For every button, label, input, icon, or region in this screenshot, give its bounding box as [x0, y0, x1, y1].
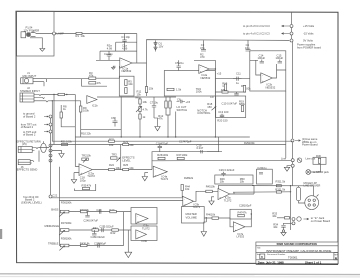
label NOTCH CONTROL [197, 108, 211, 115]
svg-text:10k: 10k [240, 180, 245, 184]
resistor R35 feedback [75, 183, 96, 190]
wire lamp loop [100, 42, 137, 51]
wire treble row [69, 245, 124, 247]
board2 terminal C [23, 130, 52, 137]
svg-text:R20 150: R20 150 [217, 118, 228, 122]
feedback box IC4 [152, 152, 222, 170]
svg-text:EFFECTS SEND: EFFECTS SEND [17, 168, 38, 172]
wire vertical mute bus [290, 186, 292, 230]
svg-text:CONTROL: CONTROL [197, 111, 211, 115]
svg-text:0V Volts: 0V Volts [303, 39, 314, 43]
wire mic to preamp [44, 79, 89, 87]
resistor R5 [125, 80, 134, 87]
capacitor C1a [122, 42, 128, 51]
svg-text:on Power Board: on Power Board [311, 219, 331, 223]
pot R37 midrange [45, 221, 73, 235]
svg-text:-: - [219, 191, 220, 194]
svg-text:100k: 100k [249, 141, 255, 145]
power supply terminal 0V [290, 35, 321, 50]
feedback box IC6b [131, 226, 157, 241]
svg-text:C6: C6 [111, 116, 115, 120]
wire output row 1 [252, 185, 314, 187]
svg-text:-: - [184, 198, 185, 201]
line return terminal [287, 164, 294, 167]
wire IC1b output [97, 96, 176, 98]
resistor R13 [167, 88, 182, 92]
svg-text:VOLUME: VOLUME [186, 215, 198, 219]
resistor R6 [125, 88, 127, 94]
resistor R1 [76, 32, 86, 38]
svg-text:-: - [137, 232, 138, 235]
ground power jack [40, 49, 45, 52]
svg-text:C11: C11 [236, 72, 241, 76]
svg-text:LEVEL: LEVEL [122, 158, 131, 162]
svg-text:10k: 10k [143, 100, 148, 104]
resistor R39 [80, 208, 90, 213]
wire EQ row [215, 79, 249, 92]
resistor R46 10k [206, 213, 219, 220]
svg-text:LINE DRIVER: LINE DRIVER [304, 184, 321, 188]
capacitor C8 [177, 97, 191, 104]
svg-text:T00001: T00001 [288, 255, 298, 259]
svg-text:10k: 10k [185, 187, 190, 191]
wire output row 2 [233, 191, 291, 193]
wire bus y137 [75, 136, 250, 138]
svg-text:C9: C9 [210, 95, 214, 99]
effects loop terminal 2 [49, 149, 52, 152]
svg-text:1.5k: 1.5k [280, 180, 286, 184]
svg-text:12V POWER: 12V POWER [24, 28, 40, 32]
ground IC3a [71, 173, 76, 184]
svg-text:NE5532: NE5532 [266, 85, 276, 89]
svg-text:MIDRANGE: MIDRANGE [45, 224, 60, 228]
capacitor C15 100uF [276, 53, 284, 63]
resistor R19 680k [239, 99, 245, 111]
svg-text:1.5k: 1.5k [176, 88, 182, 92]
resistor R4 [89, 81, 102, 85]
svg-text:100k: 100k [66, 221, 72, 225]
power input section box [17, 11, 54, 56]
svg-text:-: - [262, 75, 263, 78]
resistor R41 [92, 226, 99, 231]
svg-text:47u: 47u [200, 46, 205, 50]
resistor R25 10k [123, 163, 135, 171]
svg-text:-: - [200, 66, 201, 69]
svg-text:22k: 22k [87, 132, 92, 136]
svg-text:1u: 1u [236, 81, 239, 85]
switch contact circle [282, 230, 284, 232]
resistor R8 [60, 105, 75, 127]
svg-text:NE5532: NE5532 [201, 76, 211, 80]
svg-text:-: - [81, 166, 82, 169]
svg-text:150: 150 [207, 105, 212, 109]
connector J2 stereo input [20, 86, 48, 102]
svg-text:of Board 2: of Board 2 [23, 114, 36, 118]
ground IC5a [209, 197, 214, 205]
signal level terminal [21, 194, 58, 205]
effects return jack J5 [17, 139, 41, 152]
svg-text:IC6b: IC6b [142, 239, 148, 243]
line driver box [250, 51, 286, 91]
svg-text:15k: 15k [149, 87, 154, 91]
wire treble to bass vertical [123, 212, 125, 246]
switch SW1 lo-cut label [176, 105, 187, 137]
svg-text:INSTRUMENT PREAMP, CALIFORNIA: INSTRUMENT PREAMP, CALIFORNIA BLONDE [266, 249, 331, 253]
svg-text:47k: 47k [97, 81, 102, 85]
mute sense terminal [291, 137, 318, 147]
capacitor C26 0.022uF [91, 230, 106, 239]
shield oval [41, 143, 47, 152]
resistor R22 10k [109, 137, 115, 147]
board2 terminal B [21, 123, 52, 130]
power supply terminal +15V [243, 12, 315, 28]
effects loop terminal 1 [49, 144, 52, 147]
svg-text:470pF: 470pF [161, 141, 169, 145]
ground effects [52, 151, 64, 158]
capacitor C7 [150, 97, 159, 118]
wire lamp drop to ground [30, 38, 42, 49]
svg-text:(SIGNAL LEVEL): (SIGNAL LEVEL) [21, 200, 42, 204]
pot R38 treble [48, 236, 72, 250]
wire mic bottom [82, 79, 108, 87]
svg-text:4.99: 4.99 [107, 46, 113, 50]
trimmer TR2 [82, 153, 92, 162]
svg-text:MIC INPUT: MIC INPUT [23, 74, 37, 78]
svg-text:100k: 100k [196, 90, 202, 94]
svg-text:Document Number: Document Number [267, 253, 286, 256]
svg-text:100k: 100k [182, 153, 188, 157]
resistor R42 [110, 229, 118, 235]
resistor R44 at bus end [181, 185, 190, 198]
op-amp IC3a [79, 164, 95, 178]
svg-text:SWR SOUND CORPORATION: SWR SOUND CORPORATION [277, 242, 317, 246]
capacitor C19 0.047 [197, 137, 219, 153]
svg-text:100k: 100k [66, 201, 72, 205]
svg-text:B: B [261, 255, 263, 259]
resistor R32 [275, 188, 285, 193]
svg-text:NE5532: NE5532 [122, 69, 132, 73]
svg-text:0.022uF: 0.022uF [104, 225, 114, 229]
wire trim vertical [120, 145, 122, 170]
svg-text:22u: 22u [179, 61, 184, 65]
resistor R28 label [184, 176, 194, 180]
svg-text:to SPKR jack: to SPKR jack [313, 170, 329, 174]
svg-text:10u: 10u [262, 166, 267, 170]
svg-text:47k: 47k [242, 210, 247, 214]
svg-text:-: - [155, 168, 156, 171]
svg-text:-: - [137, 216, 138, 219]
ground tone stack [125, 252, 132, 257]
capacitor C28 label [239, 204, 252, 208]
ground tone-circuit [251, 213, 252, 214]
svg-text:LF353: LF353 [237, 235, 245, 239]
capacitor C11 [233, 72, 242, 85]
svg-text:4.7k: 4.7k [143, 108, 149, 112]
capacitor C3 [200, 40, 206, 51]
svg-text:100pF: 100pF [244, 204, 252, 208]
svg-text:47k: 47k [87, 183, 92, 187]
svg-text:15V: 15V [159, 44, 164, 48]
capacitor C18 label [80, 176, 86, 183]
trimmer TR3 sensitivity [111, 153, 135, 163]
capacitor C12 [234, 92, 238, 95]
molex connector label [304, 181, 321, 188]
wire IC1a output [132, 62, 147, 64]
svg-text:IC1b: IC1b [92, 103, 98, 107]
resistor R33 10k [272, 211, 290, 219]
wire IC2b out [272, 64, 286, 78]
svg-text:TREBLE: TREBLE [48, 242, 59, 246]
svg-text:47k: 47k [158, 116, 163, 120]
capacitor C24 0.047uF [83, 212, 98, 223]
wire lamp line [36, 33, 137, 35]
svg-text:0.047uF: 0.047uF [88, 219, 98, 223]
wire IC5b out [194, 191, 200, 201]
wire driver internals [250, 60, 261, 75]
svg-text:680pF: 680pF [99, 242, 107, 246]
capacitor C1 [121, 34, 130, 43]
svg-text:EFFECTS RETURN: EFFECTS RETURN [17, 139, 41, 143]
svg-text:C22: C22 [52, 194, 57, 198]
op-amp IC6b [136, 230, 148, 243]
svg-text:from POWER board: from POWER board [297, 46, 321, 50]
svg-text:to pin 8 of IC1 IC2 IC3: to pin 8 of IC1 IC2 IC3 [243, 24, 270, 28]
resistor R2a label [107, 44, 113, 51]
svg-text:C8: C8 [177, 97, 181, 101]
notch filter box [216, 96, 246, 118]
wire IC2a output / long vertical [209, 60, 215, 137]
resistor R10 label [81, 132, 91, 136]
pot R36 bass [51, 201, 72, 217]
svg-text:10k: 10k [211, 213, 216, 217]
mute terminal 2 [284, 222, 296, 225]
svg-text:+15 Volts: +15 Volts [303, 24, 315, 28]
svg-text:C1 10p: C1 10p [121, 35, 130, 39]
op-amp IC5b [183, 196, 201, 209]
svg-text:of Board 2: of Board 2 [21, 125, 34, 129]
capacitor C17 470pF [179, 140, 192, 144]
resistor R24 10k [109, 163, 121, 171]
svg-text:R24: R24 [109, 163, 114, 167]
presence box [215, 175, 253, 184]
svg-text:TL072: TL072 [161, 177, 169, 181]
capacitor C5 [175, 60, 184, 70]
feedback box IC2a [164, 71, 215, 97]
wire signal bus 1 [52, 197, 183, 199]
output section box [257, 169, 273, 184]
pot wiper notch [212, 107, 216, 110]
svg-text:-15 Volts: -15 Volts [303, 32, 314, 36]
capacitor C2 [100, 51, 113, 60]
resistor R45 10k [200, 185, 218, 193]
svg-text:100k: 100k [66, 236, 72, 240]
capacitor C20 [257, 166, 267, 174]
svg-text:(J5): (J5) [22, 142, 27, 146]
capacitor C13 100 [218, 110, 229, 118]
resistor R21 100k label [61, 140, 73, 146]
trimmer chain TR1 [135, 96, 149, 137]
capacitor C27 [94, 242, 106, 248]
resistor R34 label [273, 222, 278, 229]
connector J4 lamp power jack [21, 26, 39, 38]
svg-text:to pin 4 of IC1 IC2 IC3: to pin 4 of IC1 IC2 IC3 [243, 32, 270, 36]
wire into IC1a [96, 60, 120, 78]
resistor R16 100k [241, 84, 251, 92]
svg-text:10k: 10k [116, 166, 121, 170]
svg-text:10k: 10k [211, 185, 216, 189]
wire long vertical 285 [285, 91, 287, 158]
svg-text:10k: 10k [273, 225, 278, 229]
board2 terminal A [23, 112, 52, 119]
svg-text:BASS: BASS [51, 208, 58, 212]
title block frame [256, 242, 338, 264]
zener D1 [154, 40, 164, 51]
wire IC7a output [206, 214, 251, 227]
ground line return [284, 167, 289, 171]
svg-text:C29 0.022uF: C29 0.022uF [219, 168, 235, 172]
svg-text:0.022uF: 0.022uF [95, 235, 105, 239]
svg-text:100k: 100k [83, 109, 89, 113]
resistor R11 on supply drop [137, 87, 154, 97]
wire IC3a output [74, 137, 152, 173]
op-amp IC1a [120, 58, 132, 73]
svg-text:-: - [235, 224, 236, 227]
resistor R23 10k [123, 140, 135, 147]
capacitor C25 0.022uF [99, 225, 114, 233]
wire supply stub down [292, 42, 294, 47]
resistor R26 100k [157, 153, 168, 160]
svg-text:TL072: TL072 [142, 226, 150, 230]
wire mid left horizontals [81, 97, 122, 138]
svg-text:10k: 10k [220, 180, 225, 184]
title block date row [256, 260, 338, 264]
resistor R9 on left vertical [80, 106, 90, 113]
resistor R12 label mid [158, 114, 163, 121]
svg-text:100k: 100k [162, 153, 168, 157]
ground IC4a [142, 173, 148, 181]
resistor R14 vertical [165, 97, 171, 137]
svg-text:100k: 100k [66, 140, 72, 144]
wire effects bus upper [52, 140, 293, 142]
svg-text:10k: 10k [87, 153, 92, 157]
effects loop terminal 3 [49, 154, 52, 157]
wire lamp corner down [136, 34, 138, 63]
feedback box IC6a [131, 208, 157, 225]
ground IC1a [112, 66, 116, 69]
wire mid row [69, 229, 131, 231]
svg-text:C2 10p: C2 10p [104, 52, 113, 56]
svg-text:10k: 10k [129, 166, 134, 170]
ground IC7a [201, 222, 206, 236]
mute terminal 1 [292, 216, 331, 223]
svg-text:100uF: 100uF [258, 56, 266, 60]
title block size row [257, 253, 298, 259]
svg-text:10u: 10u [245, 46, 250, 50]
svg-text:10k: 10k [272, 214, 277, 218]
junction dots stereo [52, 100, 53, 101]
op-amp IC7a [233, 222, 245, 239]
svg-text:470: 470 [200, 55, 205, 59]
junction dots bus [121, 136, 217, 137]
resistor R40 [109, 208, 116, 213]
ground low-cut [154, 118, 160, 131]
svg-text:-: - [121, 60, 122, 63]
svg-text:100uF: 100uF [276, 56, 284, 60]
svg-text:470pF: 470pF [184, 140, 192, 144]
resistor R2 470 [194, 52, 215, 60]
capacitor C16 470pF [156, 141, 169, 151]
scan mark left edge [0, 229, 2, 239]
svg-text:TL072: TL072 [224, 198, 232, 202]
svg-text:4.99: 4.99 [122, 46, 128, 50]
svg-text:SWITCH: SWITCH [177, 108, 188, 112]
wire mid ground vertical [127, 230, 129, 252]
op-amp IC6a [136, 214, 150, 231]
effects loop terminal 4 [49, 159, 52, 162]
svg-text:STEREO INPUT: STEREO INPUT [20, 89, 40, 93]
op-amp IC2a [199, 65, 211, 80]
resistor R18 150 [207, 102, 212, 109]
svg-text:10k: 10k [128, 82, 133, 86]
capacitor C4 [245, 40, 251, 51]
svg-text:TR3: TR3 [112, 153, 118, 157]
capacitor C6 [111, 116, 118, 126]
op-amp IC2b [261, 73, 276, 89]
wire effects bus lower [52, 144, 286, 146]
svg-text:TL072: TL072 [193, 205, 201, 209]
resistor R17 470 [221, 88, 228, 93]
svg-text:TR1: TR1 [135, 96, 141, 100]
feedback box IC7 [230, 209, 251, 219]
wire bass row [69, 211, 131, 213]
tone section vertical [58, 167, 60, 246]
capacitor C21 [281, 226, 285, 230]
wire line-out bus [152, 159, 291, 162]
capacitor C29 0.022uF [219, 168, 235, 176]
effects send jack J6 [17, 160, 38, 172]
wire signal bus 2 [60, 200, 183, 202]
feedback box IC5 [219, 185, 255, 189]
resistor R15 1M [222, 82, 227, 91]
footswitch box [182, 207, 205, 224]
svg-text:C10 0.047uF: C10 0.047uF [222, 102, 238, 106]
op-amp IC4a [153, 166, 168, 181]
svg-text:+15: +15 [217, 72, 222, 76]
wire IC5a output [230, 185, 254, 194]
node LAMP [53, 32, 56, 35]
capacitor C23 [96, 208, 101, 214]
wire master row [204, 217, 230, 219]
op-amp IC1b [87, 96, 98, 108]
wire stereo top [41, 95, 81, 101]
svg-text:TL072: TL072 [87, 174, 95, 178]
wire stereo taps down [52, 95, 54, 145]
svg-text:+15: +15 [186, 100, 191, 104]
wire annotation column [50, 117, 52, 196]
resistor R29 100k [244, 141, 255, 145]
wire long vertical 292 [292, 47, 294, 186]
capacitor C14 100uF [258, 53, 266, 63]
resistor R3 [89, 71, 96, 80]
svg-text:22k: 22k [189, 176, 194, 180]
resistor R27 100k [177, 153, 188, 160]
op-amp IC5a [218, 189, 232, 203]
svg-text:10k: 10k [129, 143, 134, 147]
svg-text:Line: Line [281, 157, 287, 161]
svg-text:100p: 100p [80, 178, 86, 182]
inline connector body [296, 186, 304, 203]
svg-text:10k: 10k [109, 143, 114, 147]
